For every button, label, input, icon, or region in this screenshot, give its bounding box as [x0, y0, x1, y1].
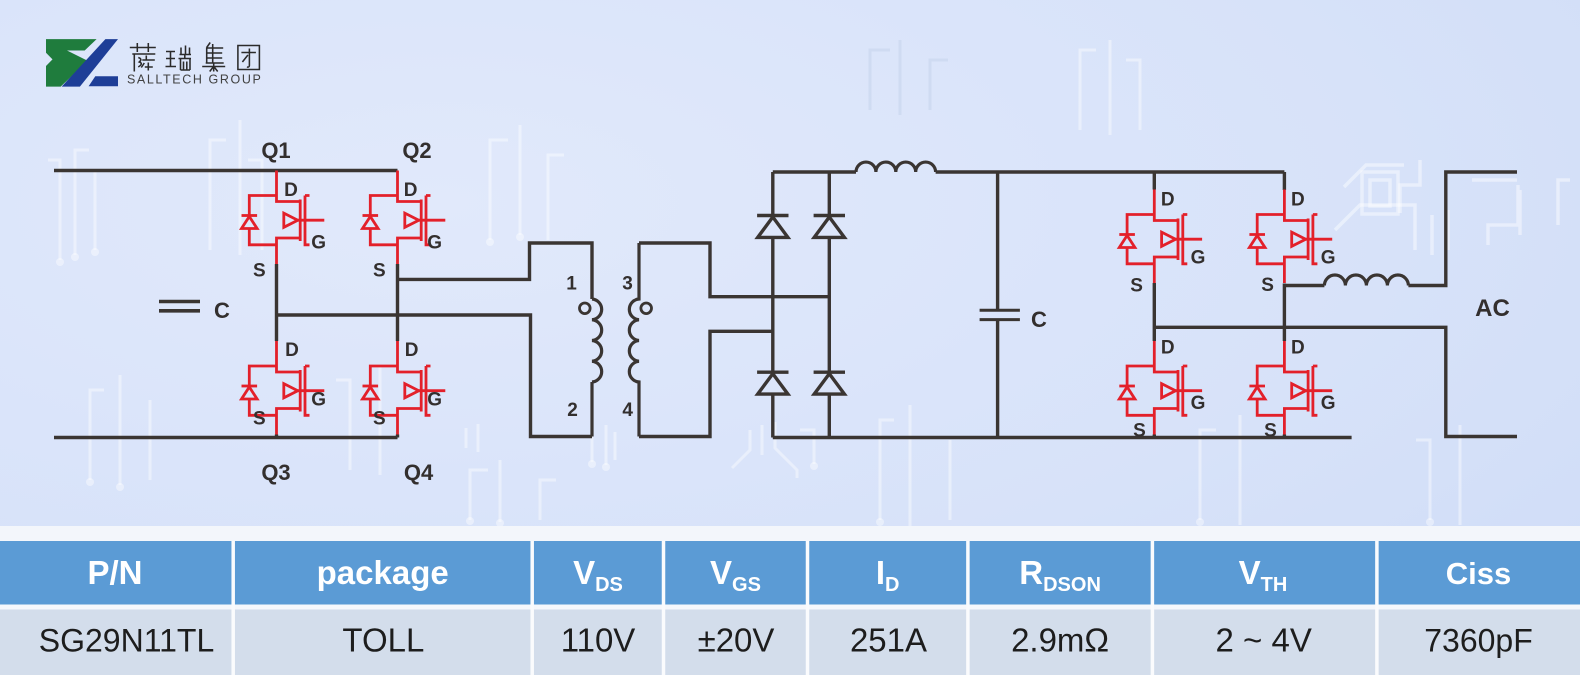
- transistor Q3: [242, 341, 325, 435]
- svg-text:110V: 110V: [561, 622, 636, 659]
- svg-text:G: G: [1321, 248, 1336, 269]
- svg-text:D: D: [404, 180, 418, 201]
- wire top rail middle: [936, 170, 1285, 173]
- wire Q1 source to mid rail: [275, 264, 278, 315]
- diode upper-left: [757, 216, 788, 238]
- svg-text:3: 3: [622, 274, 633, 295]
- logo chinese char 2 (rui): [166, 46, 192, 71]
- table header row: [0, 541, 1580, 605]
- wire right bridge right leg drain stub: [1283, 172, 1286, 190]
- wire right bridge left leg drain stub: [1153, 172, 1156, 190]
- wire bottom rail middle: [773, 436, 1352, 439]
- svg-text:G: G: [427, 232, 442, 253]
- svg-text:C: C: [1031, 307, 1047, 332]
- wire rectifier top rail to inductor: [773, 170, 856, 173]
- svg-text:D: D: [1161, 190, 1175, 211]
- transistor Q1: [242, 171, 325, 265]
- svg-text:G: G: [1321, 393, 1336, 414]
- wire secondary bottom to rectifier left leg: [639, 331, 773, 436]
- transformer secondary winding: [629, 243, 639, 437]
- svg-text:C: C: [214, 298, 230, 323]
- wire Q2 source leg down to Q4 drain: [396, 264, 399, 341]
- svg-text:G: G: [311, 390, 326, 411]
- svg-text:G: G: [427, 390, 442, 411]
- wire right bridge mid line to AC bottom: [1154, 327, 1517, 436]
- transistor lower-right of right bridge: [1249, 341, 1332, 435]
- svg-text:2: 2: [567, 400, 578, 421]
- svg-text:G: G: [311, 232, 326, 253]
- wire secondary top to rectifier right leg: [639, 243, 829, 297]
- svg-text:D: D: [284, 180, 298, 201]
- svg-text:Q1: Q1: [261, 138, 290, 163]
- transistor Q2: [363, 171, 446, 265]
- svg-text:1: 1: [566, 274, 577, 295]
- svg-text:S: S: [1264, 421, 1277, 442]
- logo icon green shape: [46, 39, 97, 87]
- wire mid rail (Q1S/Q3D node to transformer terminal 2): [277, 315, 593, 437]
- svg-text:251A: 251A: [850, 622, 927, 659]
- logo chinese char 3 (ji): [202, 43, 225, 72]
- svg-text:4: 4: [622, 400, 633, 421]
- transistor lower-left of right bridge: [1119, 341, 1202, 435]
- svg-text:7360pF: 7360pF: [1424, 623, 1533, 659]
- wire Q3 source to bottom rail: [275, 435, 278, 438]
- logo icon blue slash: [62, 39, 118, 87]
- logo chinese char 4 (tuan): [238, 46, 260, 70]
- svg-text:±20V: ±20V: [698, 622, 775, 659]
- logo icon blue foot: [89, 76, 118, 86]
- table value row: [0, 610, 1580, 675]
- table column separators: [233, 541, 1377, 675]
- logo chinese char 1 (sa): [130, 43, 156, 72]
- diode lower-right: [814, 372, 845, 394]
- diode lower-left: [757, 372, 788, 394]
- wire bottom rail left: [54, 436, 398, 439]
- svg-text:S: S: [1261, 275, 1274, 296]
- svg-text:Ciss: Ciss: [1446, 556, 1511, 591]
- svg-text:AC: AC: [1475, 295, 1510, 322]
- filter capacitor C: [980, 172, 1020, 438]
- output inductor: [1324, 275, 1408, 286]
- svg-text:P/N: P/N: [87, 554, 142, 591]
- wire top rail left: [54, 169, 398, 172]
- svg-text:SG29N11TL: SG29N11TL: [39, 623, 215, 659]
- svg-text:S: S: [1133, 421, 1146, 442]
- diode upper-right: [814, 216, 845, 238]
- svg-text:SALLTECH GROUP: SALLTECH GROUP: [127, 73, 262, 87]
- filter inductor: [856, 162, 936, 172]
- svg-text:G: G: [1191, 248, 1206, 269]
- wire right bridge right leg bottom: [1283, 435, 1286, 438]
- svg-text:S: S: [1130, 276, 1143, 297]
- transistor Q4: [363, 341, 446, 435]
- svg-text:package: package: [317, 554, 449, 591]
- wire Q2 source to transformer terminal 1: [398, 243, 593, 299]
- svg-text:D: D: [285, 340, 299, 361]
- wire rectifier left leg: [771, 172, 774, 438]
- table row gap: [0, 605, 1580, 610]
- svg-text:TOLL: TOLL: [342, 622, 424, 659]
- svg-text:D: D: [1291, 190, 1305, 211]
- transformer secondary polarity dot: [641, 303, 652, 314]
- svg-text:Q4: Q4: [404, 460, 434, 485]
- decorative background traces: [48, 40, 1460, 530]
- svg-text:2 ~ 4V: 2 ~ 4V: [1216, 622, 1312, 659]
- transistor upper-left of right bridge: [1119, 190, 1202, 284]
- wire right bridge right leg mid: [1283, 284, 1286, 342]
- svg-text:Q3: Q3: [261, 460, 290, 485]
- svg-text:Q2: Q2: [402, 138, 431, 163]
- transformer primary polarity dot: [580, 303, 591, 314]
- svg-text:S: S: [373, 408, 386, 429]
- transistor upper-right of right bridge: [1249, 190, 1332, 284]
- table top white strip: [0, 526, 1580, 541]
- wire Q4 source to bottom rail: [396, 435, 399, 438]
- transformer primary winding: [592, 299, 602, 437]
- svg-text:S: S: [253, 261, 266, 282]
- svg-text:D: D: [1161, 338, 1175, 359]
- svg-text:G: G: [1191, 393, 1206, 414]
- wire rectifier right leg: [828, 172, 831, 438]
- svg-text:2.9mΩ: 2.9mΩ: [1011, 622, 1109, 659]
- dc link capacitor symbol: [159, 302, 200, 311]
- wire right bridge left leg mid: [1153, 283, 1156, 341]
- svg-text:S: S: [373, 261, 386, 282]
- svg-text:D: D: [405, 340, 419, 361]
- wire inductor to AC top: [1284, 172, 1517, 286]
- wire right bridge left leg bottom: [1153, 435, 1156, 438]
- svg-text:D: D: [1291, 338, 1305, 359]
- wire Q3 drain stub: [275, 315, 278, 341]
- svg-text:S: S: [253, 408, 266, 429]
